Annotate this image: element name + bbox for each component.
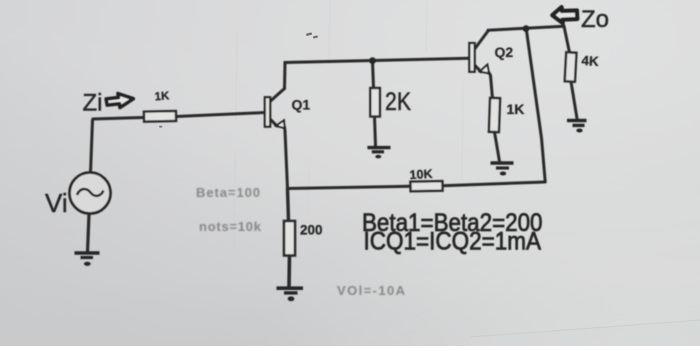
svg-text:Vi: Vi (45, 188, 68, 218)
ground (4K) (567, 121, 587, 133)
wire: bottom rail right of 10K (443, 182, 546, 186)
small stray specks (159, 32, 318, 127)
voltage source Vi (70, 173, 111, 214)
resistor 1K (Q2 emitter) (489, 98, 500, 132)
svg-text:200: 200 (300, 223, 323, 238)
resistor 200 (284, 221, 295, 256)
wire: Q1 emitter vertical to bottom rail (285, 127, 288, 189)
transistor Q2 (469, 43, 489, 73)
wire: Q2 collector diagonal (475, 31, 488, 49)
junction: right drop on top rail (523, 25, 530, 32)
faint crease bottom-right (470, 320, 700, 346)
junction: 2K tap on Q1-Q2 line (369, 57, 376, 64)
svg-text:2K: 2K (385, 88, 411, 116)
wire: Vi top to corner (91, 118, 145, 174)
resistor 1K (input) (144, 111, 176, 122)
wire: down to 4K (564, 26, 570, 52)
ghost bleed-through marks (back of page) (234, 2, 463, 252)
svg-text:nots=10k: nots=10k (199, 219, 262, 234)
wire: input resistor to Q1 base (176, 113, 266, 117)
resistor 10K (feedback) (410, 181, 442, 191)
wire: Vi bottom to ground (88, 214, 90, 252)
Q1 emitter arrow (276, 120, 285, 128)
wire: 1K bottom to ground (495, 132, 500, 162)
wire: 200 top (288, 189, 289, 222)
wire: Q2 emitter diagonal (475, 66, 481, 72)
wire: Q1 collector vertical + top-mid line to Q2 base (285, 58, 470, 88)
main schematic (70, 7, 587, 301)
wire: 2K bottom to ground (375, 117, 376, 147)
ground (1K) (491, 163, 514, 176)
resistor 2K (370, 88, 380, 117)
wire: 2K top (373, 61, 374, 88)
Q2 emitter arrow (480, 65, 489, 74)
wire: top rail to Zo/4K corner (488, 26, 564, 30)
wire: Q1 emitter diagonal (271, 120, 278, 127)
ground (2K) (367, 148, 390, 159)
svg-text:Beta=100: Beta=100 (196, 185, 260, 200)
svg-text:Zi: Zi (83, 90, 103, 117)
wire: 200 bottom to ground (287, 255, 291, 287)
wire: right drop from top rail to bottom rail (526, 29, 545, 182)
wire: Q2 emitter vertical to 1K (489, 73, 493, 99)
node Zo arrow (552, 7, 577, 23)
wire: stub up to Zo arrow (562, 22, 566, 27)
transistor Q1 (265, 97, 285, 128)
wire: bottom rail left of 10K (288, 186, 411, 188)
svg-text:Q2: Q2 (495, 44, 514, 60)
svg-text:10K: 10K (409, 167, 433, 182)
node Zi arrow (106, 92, 134, 109)
wire: 4K bottom to ground (571, 82, 577, 119)
svg-text:Q1: Q1 (292, 96, 311, 112)
svg-text:ICQ1=ICQ2=1mA: ICQ1=ICQ2=1mA (364, 228, 542, 256)
wire: Q1 collector diagonal (271, 89, 285, 102)
ground (200) (277, 288, 304, 301)
ground (Vi source) (75, 253, 100, 266)
svg-text:4K: 4K (581, 53, 599, 69)
svg-text:1K: 1K (154, 90, 170, 103)
svg-text:1K: 1K (507, 101, 525, 117)
svg-text:Zo: Zo (581, 6, 609, 33)
resistor 4K (565, 52, 577, 81)
